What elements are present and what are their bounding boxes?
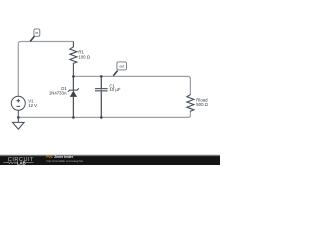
- wire C1 branch vertical: [100, 76, 102, 117]
- node flag out: [113, 62, 126, 76]
- svg-text:100 Ω: 100 Ω: [78, 54, 90, 59]
- junction V1/ground: [17, 116, 20, 119]
- svg-text:in: in: [35, 31, 38, 35]
- svg-text:12 V: 12 V: [28, 103, 37, 108]
- svg-text:out: out: [119, 65, 124, 69]
- label R1 value: [78, 50, 90, 60]
- junction C1 top: [100, 75, 103, 78]
- footer title text: [46, 155, 83, 163]
- ground: [13, 110, 25, 129]
- svg-text:1N4733A: 1N4733A: [49, 90, 67, 95]
- svg-text:LAB: LAB: [17, 160, 26, 165]
- node flag in: [30, 29, 40, 42]
- label C1 value: [109, 83, 120, 92]
- svg-text:500 Ω: 500 Ω: [196, 102, 208, 107]
- wire D1 branch vertical: [72, 76, 74, 117]
- junction D1 bottom: [72, 116, 75, 119]
- junction R1/D1/out wire: [72, 75, 75, 78]
- svg-text:10 µF: 10 µF: [109, 87, 120, 92]
- label Rload value: [196, 98, 208, 107]
- capacitor C1: [95, 76, 108, 117]
- zener diode D1: [68, 76, 79, 117]
- footer logo CIRCUIT LAB: [3, 157, 34, 165]
- wire bottom from V1/ground junction to Rload bottom corner: [18, 112, 190, 118]
- svg-text:http://circuitlab.com/caag72e: http://circuitlab.com/caag72e: [46, 159, 83, 163]
- junction C1 bottom: [100, 116, 103, 119]
- wire top from V1 up-left corner to R1 top: [18, 42, 73, 97]
- resistor R1: [70, 42, 77, 77]
- voltage source V1: [11, 96, 25, 110]
- footer bar: [0, 154, 220, 156]
- wire middle from R1 bottom junction to Rload top corner: [73, 76, 190, 94]
- label V1 value: [28, 99, 37, 108]
- label D1 value: [49, 86, 68, 96]
- resistor Rload: [187, 94, 194, 111]
